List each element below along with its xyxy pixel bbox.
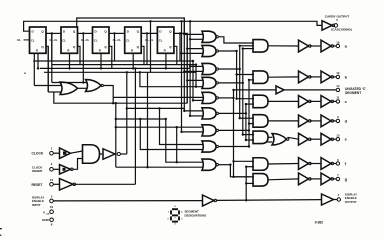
junction x176.7 bottom [176, 161, 178, 163]
wire G2 input [182, 52, 204, 54]
wire clock to vertical [120, 153, 126, 155]
junction bus1 top [180, 20, 182, 22]
wire FF1 drop to gate input [33, 53, 35, 85]
wire e to terminal [333, 138, 337, 140]
wire bus2 line [242, 49, 244, 135]
wire ungated C line [285, 89, 337, 91]
junction clock vertical y108 [126, 107, 128, 109]
junction OR2 input [82, 81, 84, 83]
svg-text:RESET: RESET [32, 183, 43, 187]
gate OR2 [86, 80, 102, 92]
wire FF4 line y108 to G6 [127, 108, 185, 111]
wire OR1 output [78, 87, 87, 89]
inverter g2 [321, 173, 331, 185]
wire a to terminal [333, 45, 337, 47]
wire c interstage [310, 100, 321, 102]
terminal carry output pin 5 [334, 24, 338, 28]
wire A-b input [237, 74, 254, 76]
wire vertical x176.7 [176, 127, 178, 162]
wire Q1 to FF2 D [46, 32, 61, 34]
wire segment e line [288, 137, 299, 139]
inverter f1 [299, 158, 309, 170]
wire feedback Q5-bar to FF1 D and carry (top rail) [24, 21, 322, 31]
mark scan speck 1 [0, 228, 2, 229]
gate G7 [202, 125, 216, 136]
wire Q4 to FF5 D [141, 32, 157, 34]
gate A-f [253, 158, 268, 171]
svg-text:CLOCK: CLOCK [32, 152, 44, 156]
buffer ungated-C [276, 86, 284, 94]
wire display enable line [53, 200, 202, 202]
gate G6 [202, 108, 216, 119]
wire bus2 line [236, 51, 238, 99]
wire Q3 drop to rail [114, 33, 116, 61]
junction FF4 reset [132, 67, 134, 69]
wire FF1 reset pin drop [37, 53, 39, 68]
wire Q5-bar stub [174, 46, 177, 64]
wire Q2 to FF3 D [78, 32, 93, 34]
wire f interstage [310, 163, 321, 165]
wire A-f input [246, 166, 254, 168]
svg-text:9-383: 9-383 [315, 221, 323, 225]
wire vertical x147.5 [147, 72, 149, 167]
wire DEO to terminal [333, 199, 338, 201]
wire G9 lower line [116, 166, 204, 168]
wire g interstage [310, 178, 321, 180]
wire loop under OR1 along y103 to bus [54, 92, 187, 103]
wire rail 2 [52, 64, 196, 66]
terminal segment g pin 7 [336, 177, 339, 180]
wire A-d input [240, 117, 254, 119]
wire G2 input [187, 48, 203, 50]
wire A-e input [246, 139, 254, 141]
wire segment a line [268, 45, 299, 47]
gate OR-e [272, 133, 287, 145]
wire Q2 drop to rail [82, 33, 84, 82]
wire G2 output [218, 50, 236, 52]
svg-text:CL–CL: CL–CL [49, 38, 58, 42]
wire g to terminal [333, 178, 337, 180]
svg-text:INPUT: INPUT [32, 203, 41, 207]
wire Q5 to bus [174, 33, 187, 103]
terminal segment a pin 10 [336, 44, 339, 47]
wire bus line 6 [195, 65, 197, 87]
svg-text:11: 11 [336, 96, 339, 100]
wire bus2 line [239, 46, 241, 118]
wire a interstage [310, 45, 321, 47]
svg-text:INHIBIT: INHIBIT [32, 169, 43, 173]
terminal segment e pin 13 [336, 138, 339, 141]
symbol seven-segment designations [171, 209, 179, 221]
wire bus2 line [245, 104, 247, 140]
wire clock main vertical [126, 72, 128, 154]
wire OR2 output to G5 [104, 86, 204, 98]
svg-text:GND: GND [42, 218, 50, 222]
gate G5 [202, 92, 216, 103]
wire G3 input [184, 70, 203, 72]
svg-text:12: 12 [336, 71, 340, 75]
wire A-b input [249, 79, 254, 81]
wire OR2 input top [52, 82, 87, 84]
svg-text:15: 15 [50, 178, 54, 182]
svg-text:CL–CL: CL–CL [81, 38, 90, 42]
junction FF5 reset [165, 67, 167, 69]
gate OR1 [60, 82, 78, 95]
wire Q3 to FF4 D [109, 32, 125, 34]
mark scan speck 2 [0, 235, 1, 236]
junction bus5 [192, 60, 194, 62]
terminal ungated C pin 14 [336, 88, 339, 91]
wire OR1 input b [48, 91, 61, 93]
wire G4 output [218, 82, 242, 84]
svg-text:13: 13 [336, 134, 340, 138]
svg-text:(CASCADING): (CASCADING) [331, 27, 352, 31]
inverter a1 [299, 40, 309, 52]
wire bus line 5 [192, 61, 194, 100]
wire top rail second [77, 18, 185, 34]
wire A-f input [234, 160, 255, 162]
inverter b1 [299, 71, 309, 83]
inverter d2 [321, 115, 331, 127]
gate A-a [253, 40, 268, 53]
buffer clock [60, 148, 71, 159]
wire bus line 3 [186, 33, 188, 103]
wire A-c input [237, 98, 254, 100]
wire G8 output [218, 146, 249, 148]
wire A-g input [234, 176, 255, 178]
wire OR-e input 2 [266, 141, 272, 143]
wire G6 output [218, 112, 246, 114]
wire A-g input [246, 182, 254, 184]
junction y119 right [165, 118, 167, 120]
wire segment b line [268, 76, 299, 78]
wire line y127.2 to G7 [116, 126, 204, 128]
wire Q1bar vertical [47, 46, 49, 92]
junction UCS [232, 89, 234, 91]
wire bus2 line [233, 90, 235, 177]
inverter d1 [299, 115, 309, 127]
gate G3 [202, 63, 216, 74]
gate A-d [253, 115, 268, 128]
junction FF3 reset [100, 67, 102, 69]
flip-flop FF2 [61, 27, 78, 53]
wire bus line 2 [183, 18, 185, 111]
wire G6 input [190, 115, 203, 117]
gate G1 [202, 31, 216, 42]
gate G8 [202, 141, 216, 152]
wire reset vertical from buffer [134, 68, 136, 184]
wire bus line 4 [189, 21, 191, 116]
junction gap riser top [149, 20, 151, 22]
wire segment g line [268, 178, 299, 181]
wire clock AND out [100, 153, 104, 155]
junction bus4 top [189, 20, 191, 22]
wire G9 output [218, 164, 230, 166]
wire Q1 vertical [51, 33, 53, 82]
svg-text:CL: CL [62, 38, 66, 42]
wire reset in [53, 183, 59, 185]
wire d interstage [310, 120, 321, 122]
gate G4 [202, 77, 216, 88]
inverter a2 [321, 40, 331, 52]
junction Q4 [146, 32, 148, 34]
wire b to terminal [333, 76, 337, 78]
wire Q4 drop to rail [146, 33, 148, 64]
wire G3 input [190, 65, 203, 67]
wire DEI riser to gates [245, 167, 247, 201]
gate A-g [253, 174, 268, 187]
junction Q5 [179, 32, 181, 34]
inverter e2 [321, 133, 331, 145]
wire FF4 reset pin drop [132, 53, 134, 68]
junction Q3 [113, 32, 115, 34]
junction FF2 reset [68, 67, 70, 69]
wire G5 output [218, 97, 233, 99]
wire G5 input [193, 99, 204, 101]
svg-text:CL: CL [126, 38, 130, 42]
inverter g1 [299, 173, 309, 185]
flip-flop FF1 [30, 27, 47, 53]
flip-flop FF3 [93, 27, 110, 53]
wire G6 input [184, 110, 203, 112]
svg-text:CL: CL [31, 38, 35, 42]
wire rail 1 [33, 60, 193, 62]
buffer reset [60, 179, 74, 191]
terminal segment d pin 9 [336, 119, 339, 122]
wire G1 input [184, 33, 203, 35]
wire segment f line [268, 163, 299, 166]
svg-text:DESIGNATIONS: DESIGNATIONS [185, 214, 207, 218]
buffer clock 2 [103, 149, 115, 160]
inverter f2 [321, 158, 331, 170]
terminal display enable output pin 4 [337, 198, 340, 201]
wire G7 output [218, 129, 249, 131]
svg-text:10: 10 [336, 40, 340, 44]
wire A-d input [249, 123, 254, 125]
junction bus6 tie [195, 86, 197, 88]
svg-text:14: 14 [336, 84, 340, 88]
wire A-e output to OR-e [268, 136, 273, 138]
svg-text:CL: CL [94, 38, 98, 42]
wire OR1 input a [34, 85, 61, 87]
junction stair x159.5 [158, 107, 160, 109]
wire segment c line [268, 100, 299, 102]
terminal clock internal [117, 152, 120, 155]
junction stair x140.3 [139, 118, 141, 120]
gate A-e [253, 131, 268, 144]
wire Q4-bar drop [141, 46, 144, 64]
buffer clock inhibit [60, 165, 71, 175]
wire G3 output [218, 68, 239, 70]
junction y127.2 [115, 126, 117, 128]
svg-text:CL: CL [159, 38, 163, 42]
mark speck near CL [24, 73, 25, 74]
wire stair x140.3 to G8 lower [140, 119, 203, 150]
wire FF5 reset pin drop [165, 53, 167, 68]
wire Q1-bar drop [46, 46, 48, 92]
wire FF4 Qbar line y86.7 to G4 lower input [140, 72, 204, 86]
wire FF3 reset pin drop [100, 53, 102, 68]
wire clock rail [44, 71, 196, 73]
inverter b2 [321, 71, 331, 83]
wire Q1 drop to rail [51, 33, 53, 61]
gate A-c [253, 95, 268, 108]
junction reset rail [134, 67, 136, 69]
wire G1 input [190, 38, 203, 40]
wire riser x113 [112, 97, 114, 103]
gate clock AND [83, 145, 100, 164]
flip-flop FF5 [157, 27, 174, 53]
buffer display enable output [322, 194, 334, 205]
junction x176.7 top [176, 126, 178, 128]
inverter e1 [299, 133, 309, 145]
wire stair x165.8 to G9 upper [166, 119, 204, 162]
wire Q3-bar drop [109, 46, 112, 68]
wire A-e input [243, 134, 254, 136]
junction loop riser [112, 102, 114, 104]
wire d to terminal [333, 120, 337, 122]
wire clock in [53, 152, 59, 154]
flip-flop FF4 [125, 27, 142, 53]
terminal segment b pin 12 [336, 75, 339, 78]
junction bus6 [195, 63, 197, 65]
wire vertical x115.8 spine [115, 103, 117, 167]
wire G7 input [182, 131, 204, 133]
junction x147.5 G9 line [146, 166, 148, 168]
wire A-a input [240, 45, 254, 47]
wire Q5 drop [179, 33, 181, 61]
wire G9 output riser to A-g [230, 165, 251, 177]
buffer display enable [203, 195, 215, 206]
inverter c1 [299, 96, 309, 108]
wire DEI buffer out [216, 199, 321, 202]
wire Q2-bar drop [78, 46, 81, 64]
junction y119 left [115, 118, 117, 120]
wire line y119 [116, 118, 166, 120]
wire inhibit in [53, 168, 59, 170]
junction spine top [115, 102, 117, 104]
terminal segment c pin 11 [336, 100, 339, 103]
wire gap riser FF4-FF5 [150, 21, 152, 72]
wire c to terminal [333, 100, 337, 102]
gate G9 [202, 159, 216, 170]
wire reset rail [40, 67, 190, 69]
junction clock rail [126, 71, 128, 73]
wire G4 input [187, 79, 203, 81]
wire e interstage [310, 138, 321, 140]
wire inhibit to AND [73, 159, 83, 170]
wire stair x159.5 to G8 upper [160, 108, 204, 144]
wire f to terminal [333, 163, 337, 165]
junction FF1 reset [37, 67, 39, 69]
wire A-c input [246, 103, 254, 105]
wire FF2 reset pin drop [69, 53, 71, 68]
junction DEI riser [245, 199, 247, 201]
wire A-a input [243, 48, 254, 50]
junction y86.7 line [139, 71, 141, 73]
wire UCS input [234, 89, 277, 91]
svg-text:DD: DD [46, 213, 50, 215]
gate A-b [253, 71, 268, 84]
wire reset out [75, 183, 136, 185]
inverter carry [322, 21, 332, 31]
gate G2 [202, 45, 216, 56]
wire segment d line [268, 120, 299, 122]
svg-text:16: 16 [50, 205, 54, 209]
junction Q2 [82, 32, 84, 34]
svg-text:SEGMENT: SEGMENT [345, 91, 361, 95]
wire clock buffer out [71, 151, 83, 153]
svg-text:OUTPUT: OUTPUT [345, 200, 357, 204]
junction Q1 [51, 32, 53, 34]
wire bus2 line [248, 80, 250, 147]
wire G1 output jog to A-a [218, 37, 254, 43]
wire b interstage [310, 76, 321, 78]
wire bus line 1 [181, 21, 183, 132]
inverter c2 [321, 96, 331, 108]
svg-text:CL: CL [17, 38, 21, 42]
terminal segment f pin 6 [336, 162, 339, 165]
